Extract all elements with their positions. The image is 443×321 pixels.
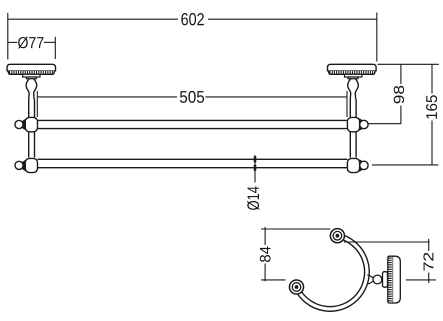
leader Ø14 tick bottom — [254, 165, 257, 171]
left upper knob sphere — [15, 120, 23, 128]
right post upper segment — [349, 99, 351, 118]
left lower knob sphere — [15, 161, 23, 169]
upper bar cross-section — [330, 229, 344, 243]
side view wall plate — [393, 256, 401, 303]
left post middle segment — [28, 132, 30, 158]
right wall plate top — [328, 64, 377, 71]
left stem baluster — [26, 79, 37, 100]
right lower knob sphere — [360, 161, 368, 169]
leader Ø14 tick top — [254, 156, 257, 162]
right wall plate knurled rim — [328, 71, 375, 75]
right post middle segment — [349, 132, 351, 158]
dimension 505 extension line right — [346, 91, 348, 117]
right upper collar — [347, 117, 359, 131]
right lower knob neck — [360, 160, 363, 171]
dimension 72 text — [423, 253, 433, 271]
side view wall plate knurled band — [388, 256, 393, 303]
dimension 72 bottom pointer — [406, 279, 436, 281]
dimension 602 line — [8, 18, 377, 20]
dimension 98 text — [394, 86, 404, 104]
right stem washer — [345, 74, 362, 77]
dimension 602 text — [181, 13, 204, 25]
dimension 98 line — [400, 64, 402, 123]
leader Ø14 — [254, 155, 256, 182]
dimension 84 line — [264, 227, 266, 281]
dimension 72 line — [428, 239, 430, 283]
left wall plate knurled rim — [8, 71, 55, 75]
dimension 505 text — [180, 91, 204, 103]
towel bar lower — [38, 158, 348, 160]
left post upper segment — [28, 99, 30, 118]
left wall plate top — [7, 64, 55, 71]
pointer line from upper bar section to 72 dimension — [344, 241, 430, 243]
right lower collar — [347, 158, 359, 172]
side view joint washer — [383, 272, 388, 288]
dimension 165 pointer at lower bar — [372, 164, 438, 166]
left lower knob neck — [23, 160, 26, 171]
side view joint stem — [367, 275, 373, 284]
dimension Ø77 text — [18, 37, 44, 49]
dimension 84 top pointer — [261, 228, 330, 230]
left stem step — [26, 77, 36, 79]
dimension 602 extension line right — [376, 13, 378, 62]
dimension 505 extension line left — [36, 91, 38, 117]
dimension 84 text — [260, 246, 271, 262]
left lower collar — [25, 158, 37, 172]
side view joint ball — [373, 275, 382, 284]
towel bar upper — [38, 119, 348, 121]
dimension 165 text — [426, 95, 437, 118]
right upper knob neck — [360, 119, 363, 130]
right upper knob sphere — [360, 120, 368, 128]
dimension 602 extension line left — [7, 13, 9, 60]
left upper knob neck — [23, 119, 26, 130]
left stem washer — [23, 74, 40, 77]
lower bar cross-section — [289, 280, 303, 294]
dimension 165 line — [431, 64, 433, 165]
right stem baluster — [348, 79, 359, 100]
side view C-arm — [294, 234, 369, 312]
dimension Ø77 extension line right — [54, 37, 56, 59]
extension line at plate top level right — [378, 63, 439, 65]
dimension Ø77 line — [8, 41, 56, 43]
dimension 505 line — [37, 96, 347, 98]
dimension 98 pointer at upper bar — [369, 123, 402, 125]
right stem step — [348, 77, 358, 79]
Ø14 label text — [247, 186, 259, 209]
dimension 84 bottom pointer — [261, 279, 286, 281]
left upper collar — [25, 117, 37, 131]
